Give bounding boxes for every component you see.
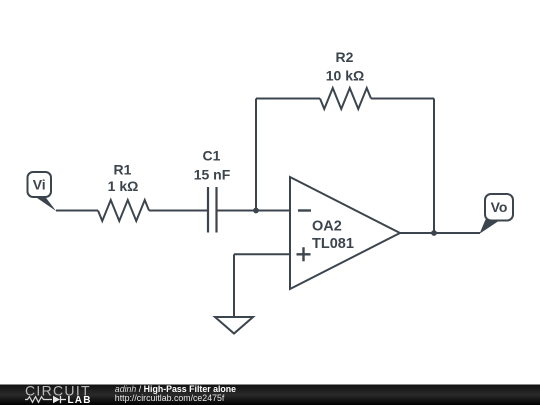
C1 designator label (203, 148, 221, 164)
wire feedback right vertical (433, 99, 435, 234)
C1 value label 15 nF (194, 166, 231, 182)
CircuitLab logo diode (53, 396, 66, 403)
resistor R1 (98, 200, 149, 221)
svg-text:R2: R2 (336, 49, 354, 65)
wire R1 to C1 (149, 210, 207, 212)
footer bar (0, 385, 540, 405)
op-amp OA2 body (290, 177, 400, 289)
R2 value label 10 kOhm (326, 68, 364, 84)
wire feedback left vertical (255, 99, 257, 211)
junction output node (431, 230, 437, 236)
R1 value label 1 kOhm (108, 178, 139, 194)
op-amp inverting pin minus sign (298, 209, 311, 211)
svg-text:R1: R1 (114, 161, 132, 177)
svg-text:http://circuitlab.com/ce2475f: http://circuitlab.com/ce2475f (115, 393, 225, 403)
op-amp value label TL081 (312, 236, 354, 252)
svg-text:Vo: Vo (491, 199, 508, 215)
resistor R2 (320, 88, 371, 109)
CircuitLab logo resistor zigzag (25, 397, 52, 403)
footer url line (115, 393, 225, 403)
capacitor C1 (208, 187, 217, 233)
ground (215, 317, 253, 334)
op-amp non-inverting pin plus sign (297, 247, 311, 261)
node Vi flag (28, 172, 57, 211)
wire to ground (233, 254, 235, 317)
wire C1 to op-amp inverting input (218, 210, 291, 212)
svg-text:OA2: OA2 (312, 219, 342, 235)
junction C1 feedback node (253, 208, 259, 214)
CircuitLab logo wordmark CIRCUIT (25, 383, 91, 399)
svg-text:15 nF: 15 nF (194, 166, 231, 182)
op-amp name label OA2 (312, 219, 342, 235)
svg-text:C1: C1 (203, 148, 221, 164)
R2 designator label (336, 49, 354, 65)
svg-text:Vi: Vi (33, 177, 46, 193)
wire R2 to right vertical (371, 98, 434, 100)
wire Vi to R1 (56, 210, 98, 212)
svg-text:1 kΩ: 1 kΩ (108, 178, 139, 194)
R1 designator label (114, 161, 132, 177)
svg-text:TL081: TL081 (312, 236, 354, 252)
svg-text:10 kΩ: 10 kΩ (326, 68, 364, 84)
node Vo flag (480, 194, 514, 234)
wire top to R2 (256, 98, 320, 100)
svg-text:LAB: LAB (68, 395, 92, 405)
wire op-amp output to Vo (400, 232, 480, 234)
wire non-inverting input (234, 253, 290, 255)
CircuitLab logo wordmark LAB (68, 395, 92, 405)
footer credit line (115, 384, 236, 394)
